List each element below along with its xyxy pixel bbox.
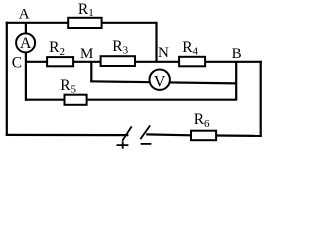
wire: top horizontal left segment: [6, 22, 68, 24]
wire: R5 row left segment from ammeter line to R5: [26, 99, 65, 101]
resistor R6: [191, 131, 216, 141]
wire: stub below node M down to voltmeter row: [90, 62, 92, 82]
wire: row2 segment C to R2: [26, 61, 47, 63]
wire: top horizontal right segment after R1: [102, 22, 158, 24]
battery positive terminal slash: [122, 126, 131, 140]
svg-text:A: A: [19, 7, 30, 23]
wire: left vertical: [6, 22, 8, 136]
svg-text:N: N: [158, 45, 169, 61]
battery negative terminal slash: [140, 125, 150, 139]
resistor R5: [65, 95, 87, 105]
wire: vertical from ammeter bottom through node C to R5 row: [25, 52, 27, 101]
wire: voltmeter row from M stub to B stub: [90, 81, 236, 83]
wire: bottom segment from negative terminal to R6: [146, 133, 191, 136]
wire: row2 segment R3 to R4 (node N): [135, 61, 179, 63]
svg-text:V: V: [154, 73, 166, 90]
resistor R1: [68, 18, 101, 28]
wire: vertical stub below node B down to R5 row: [235, 62, 237, 101]
resistor R3: [101, 56, 135, 66]
svg-text:A: A: [20, 35, 32, 52]
wire: row2 segment R2 to R3 (node M): [73, 61, 101, 63]
wire: right vertical: [260, 61, 262, 137]
resistor R2: [47, 57, 73, 66]
wire: row2 segment R4 to right vertical (node B): [205, 61, 262, 63]
resistor R4: [179, 57, 205, 67]
wire: stub from top wire down to ammeter: [25, 23, 27, 34]
ammeter circle: [16, 33, 35, 52]
voltmeter circle: [150, 70, 170, 90]
svg-text:M: M: [80, 46, 93, 62]
wire: bottom right segment from R6 to right vertical: [216, 134, 262, 137]
wire: vertical from top wire down to node N: [155, 23, 157, 62]
wire: bottom left segment to battery positive terminal: [6, 134, 129, 136]
battery minus sign: [141, 143, 152, 145]
svg-text:B: B: [232, 46, 242, 62]
wire: R5 row right segment to B stub: [87, 99, 237, 101]
svg-text:C: C: [12, 55, 22, 72]
battery plus sign: [117, 141, 129, 149]
